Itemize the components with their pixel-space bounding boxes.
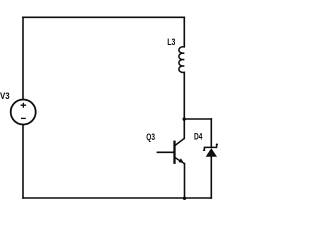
- wire diode branch upper: [210, 119, 212, 147]
- wire top: [23, 16, 184, 18]
- svg-text:Q3: Q3: [146, 132, 155, 142]
- svg-text:V3: V3: [0, 91, 10, 101]
- diode D4: [203, 144, 218, 156]
- node junction dot bottom: [183, 197, 186, 200]
- wire left upper: [22, 17, 24, 99]
- wire emitter vertical: [184, 164, 186, 198]
- inductor L3: [179, 47, 184, 73]
- wire bottom: [23, 197, 211, 199]
- svg-text:L3: L3: [167, 37, 175, 47]
- voltage source V3: [11, 100, 36, 125]
- wire right top: [183, 17, 185, 47]
- node junction dot right: [183, 117, 186, 120]
- wire right mid: [183, 72, 185, 138]
- wire diode branch lower: [210, 157, 212, 198]
- svg-text:D4: D4: [194, 131, 202, 141]
- wire left lower: [22, 125, 24, 198]
- wire diode branch horizontal: [184, 118, 211, 120]
- transistor Q3: [157, 138, 185, 164]
